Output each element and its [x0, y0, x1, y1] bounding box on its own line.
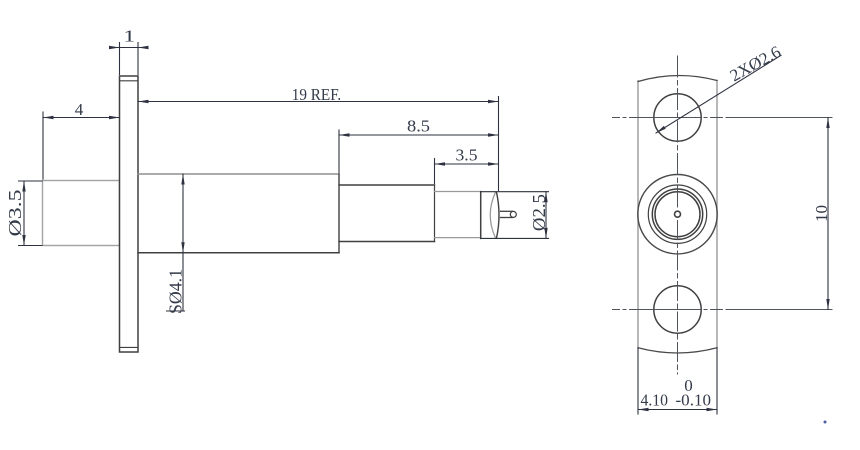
svg-text:4: 4	[75, 100, 84, 119]
svg-text:Ø2.5: Ø2.5	[529, 194, 549, 231]
svg-text:Ø3.5: Ø3.5	[5, 190, 25, 237]
svg-text:1: 1	[123, 27, 135, 46]
svg-text:8.5: 8.5	[407, 117, 430, 136]
svg-text:19 REF.: 19 REF.	[292, 85, 342, 104]
svg-text:10: 10	[812, 205, 831, 222]
svg-text:-0.10: -0.10	[676, 391, 712, 410]
svg-text:SØ4.1: SØ4.1	[166, 269, 186, 314]
svg-text:4.10: 4.10	[641, 391, 669, 410]
svg-text:2XØ2.6: 2XØ2.6	[727, 42, 784, 85]
svg-text:3.5: 3.5	[456, 146, 478, 165]
